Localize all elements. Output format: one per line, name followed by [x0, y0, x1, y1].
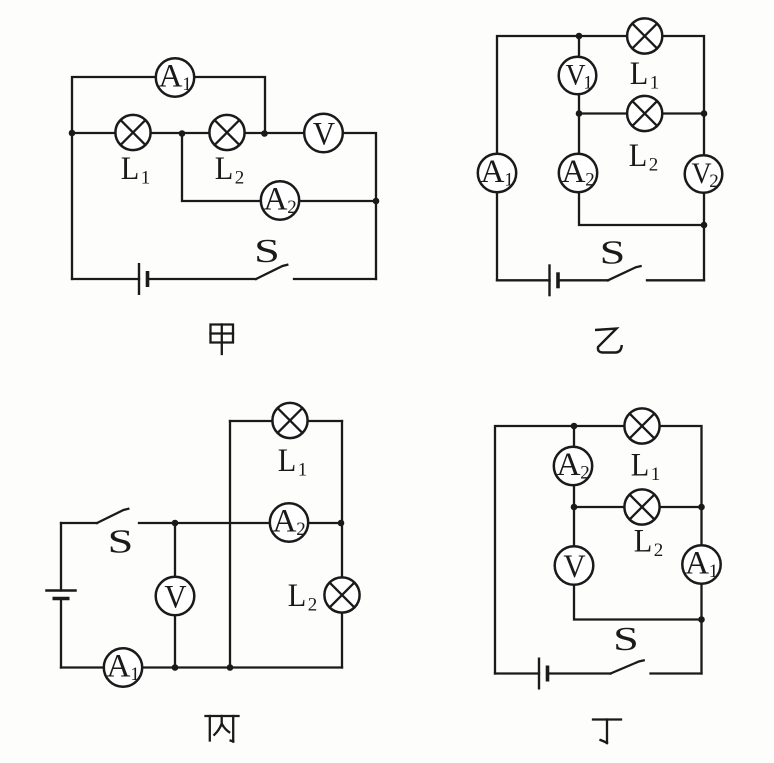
svg-text:L: L: [121, 151, 140, 187]
svg-text:V: V: [164, 580, 186, 616]
svg-text:2: 2: [654, 540, 664, 561]
svg-text:L: L: [629, 138, 648, 174]
svg-text:S: S: [600, 235, 626, 272]
svg-text:L: L: [288, 578, 307, 614]
svg-text:1: 1: [182, 74, 192, 95]
svg-text:S: S: [613, 621, 639, 658]
svg-text:2: 2: [649, 155, 659, 176]
svg-text:2: 2: [580, 462, 590, 483]
svg-text:2: 2: [287, 197, 297, 218]
svg-text:S: S: [254, 233, 280, 270]
svg-text:1: 1: [651, 464, 661, 485]
svg-text:2: 2: [235, 168, 245, 189]
svg-text:V: V: [313, 117, 335, 153]
svg-text:1: 1: [650, 73, 660, 94]
svg-text:2: 2: [308, 595, 318, 616]
svg-text:S: S: [108, 524, 134, 561]
svg-text:A: A: [159, 58, 183, 94]
svg-text:L: L: [215, 151, 234, 187]
svg-text:A: A: [562, 154, 586, 190]
svg-text:A: A: [481, 154, 505, 190]
svg-text:1: 1: [141, 168, 151, 189]
svg-text:V: V: [563, 549, 585, 585]
svg-text:A: A: [273, 503, 297, 539]
svg-text:1: 1: [583, 73, 593, 94]
svg-text:L: L: [630, 56, 649, 92]
svg-text:A: A: [557, 447, 581, 483]
svg-text:L: L: [634, 524, 653, 560]
svg-text:A: A: [685, 545, 709, 581]
svg-text:1: 1: [504, 169, 514, 190]
svg-text:L: L: [631, 448, 650, 484]
svg-text:1: 1: [298, 460, 308, 481]
svg-text:A: A: [264, 181, 288, 217]
svg-text:1: 1: [130, 664, 140, 685]
svg-text:2: 2: [296, 519, 306, 540]
svg-text:1: 1: [709, 561, 719, 582]
svg-text:2: 2: [709, 171, 719, 192]
svg-text:A: A: [107, 648, 131, 684]
svg-text:2: 2: [585, 169, 595, 190]
svg-text:L: L: [278, 443, 297, 479]
